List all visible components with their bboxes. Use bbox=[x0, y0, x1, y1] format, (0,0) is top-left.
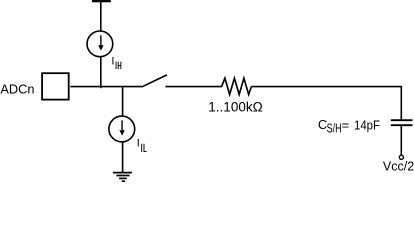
power rail VCC bar bbox=[92, 0, 111, 2]
svg-text:Vcc/2: Vcc/2 bbox=[383, 160, 414, 174]
wire node A to current source IIL bbox=[122, 87, 124, 117]
wire current source IIH to node A bbox=[100, 57, 102, 88]
svg-text:S/H: S/H bbox=[327, 122, 342, 136]
wire capacitor to terminal bbox=[400, 126, 402, 155]
label IIL subscript IL (condensed, drawn) bbox=[142, 144, 147, 152]
svg-text:I: I bbox=[137, 138, 140, 150]
wire switch to resistor bbox=[165, 86, 221, 88]
current source IIL circle bbox=[109, 116, 135, 142]
current source IIL arrow bbox=[121, 120, 123, 131]
capacitor CSH bottom plate bbox=[391, 124, 413, 126]
pin box ADCn bbox=[42, 73, 69, 99]
label IIH subscript IH (condensed, drawn) bbox=[116, 62, 121, 69]
terminal Vcc/2 open circle bbox=[399, 155, 403, 159]
ground symbol bbox=[113, 172, 132, 174]
resistor R 1..100k zigzag bbox=[222, 78, 252, 94]
switch S1 blade (open) bbox=[143, 75, 167, 86]
wire ADCn box to switch (node A) bbox=[70, 86, 143, 88]
svg-text:C: C bbox=[318, 117, 327, 132]
svg-text:=: = bbox=[342, 117, 350, 132]
wire resistor to capacitor corner bbox=[251, 87, 401, 120]
svg-text:I: I bbox=[111, 55, 114, 67]
wire VCC bar to current source IIH bbox=[100, 2, 102, 31]
svg-text:ADCn: ADCn bbox=[0, 82, 34, 97]
svg-text:1..100kΩ: 1..100kΩ bbox=[208, 100, 262, 115]
svg-text:14pF: 14pF bbox=[354, 117, 380, 132]
current source IIH circle bbox=[87, 31, 113, 57]
capacitor CSH top plate bbox=[391, 119, 413, 121]
current source IIH arrow bbox=[100, 35, 102, 46]
wire current source IIL to ground bbox=[122, 143, 124, 173]
